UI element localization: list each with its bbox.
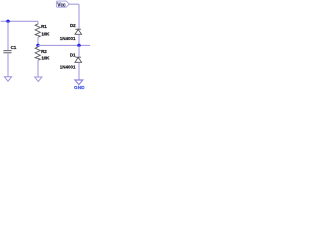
svg-text:10K: 10K bbox=[41, 56, 50, 61]
svg-text:R1: R1 bbox=[41, 24, 47, 29]
wire top horizontal net bbox=[1, 21, 38, 24]
ground below R2 bbox=[35, 77, 42, 82]
wire D1 to GND bbox=[78, 62, 80, 80]
capacitor C1 bbox=[3, 51, 11, 53]
wire middle horizontal output net bbox=[38, 44, 90, 46]
ground below C1 bbox=[4, 77, 11, 81]
resistor R1 bbox=[35, 24, 40, 37]
diode D1 bbox=[75, 57, 82, 62]
diode D2 bbox=[75, 29, 82, 34]
svg-text:C1: C1 bbox=[11, 45, 17, 50]
node junction output/diodes bbox=[77, 44, 80, 47]
wire left vertical to C1 bbox=[7, 21, 9, 50]
svg-text:10K: 10K bbox=[41, 32, 50, 37]
power flag Vcc bbox=[56, 1, 69, 8]
ground GND flag bbox=[74, 80, 85, 90]
svg-text:GND: GND bbox=[74, 85, 85, 90]
wire junction to D1 bbox=[78, 45, 80, 57]
svg-text:R2: R2 bbox=[41, 49, 47, 54]
resistor R2 bbox=[35, 47, 40, 60]
svg-text:1N4001: 1N4001 bbox=[60, 64, 76, 69]
svg-text:D2: D2 bbox=[70, 23, 76, 28]
wire junction to R2 top bbox=[37, 45, 39, 47]
wire Vcc to D2 bbox=[69, 4, 79, 29]
wire R2 bottom to ground bbox=[37, 60, 39, 76]
node junction divider bbox=[36, 44, 39, 47]
svg-text:1N4001: 1N4001 bbox=[60, 36, 76, 41]
svg-text:Vcc: Vcc bbox=[57, 3, 66, 9]
wire D2 to junction bbox=[78, 34, 80, 45]
node junction top-left bbox=[6, 20, 9, 23]
svg-text:D1: D1 bbox=[70, 52, 76, 57]
wire below C1 to ground bbox=[7, 53, 9, 76]
wire R1 bottom to junction bbox=[37, 37, 39, 45]
